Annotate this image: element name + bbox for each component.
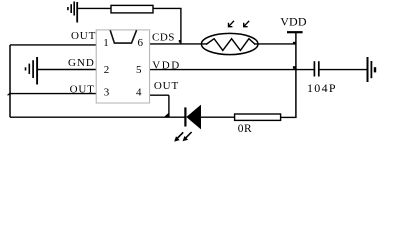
svg-text:4: 4 — [136, 86, 142, 98]
svg-text:0R: 0R — [238, 123, 252, 135]
svg-text:6: 6 — [138, 37, 144, 49]
svg-text:2: 2 — [104, 64, 110, 76]
svg-text:VDD: VDD — [280, 15, 307, 29]
svg-text:5: 5 — [136, 64, 142, 76]
svg-text:OUT: OUT — [154, 80, 179, 92]
svg-text:GND: GND — [68, 57, 95, 69]
svg-text:CDS: CDS — [152, 31, 175, 43]
svg-text:104P: 104P — [307, 81, 337, 95]
svg-text:OUT: OUT — [71, 30, 96, 42]
svg-text:1: 1 — [103, 37, 109, 49]
svg-text:OUT: OUT — [70, 83, 95, 95]
svg-text:VDD: VDD — [152, 60, 181, 72]
svg-text:3: 3 — [104, 86, 110, 98]
